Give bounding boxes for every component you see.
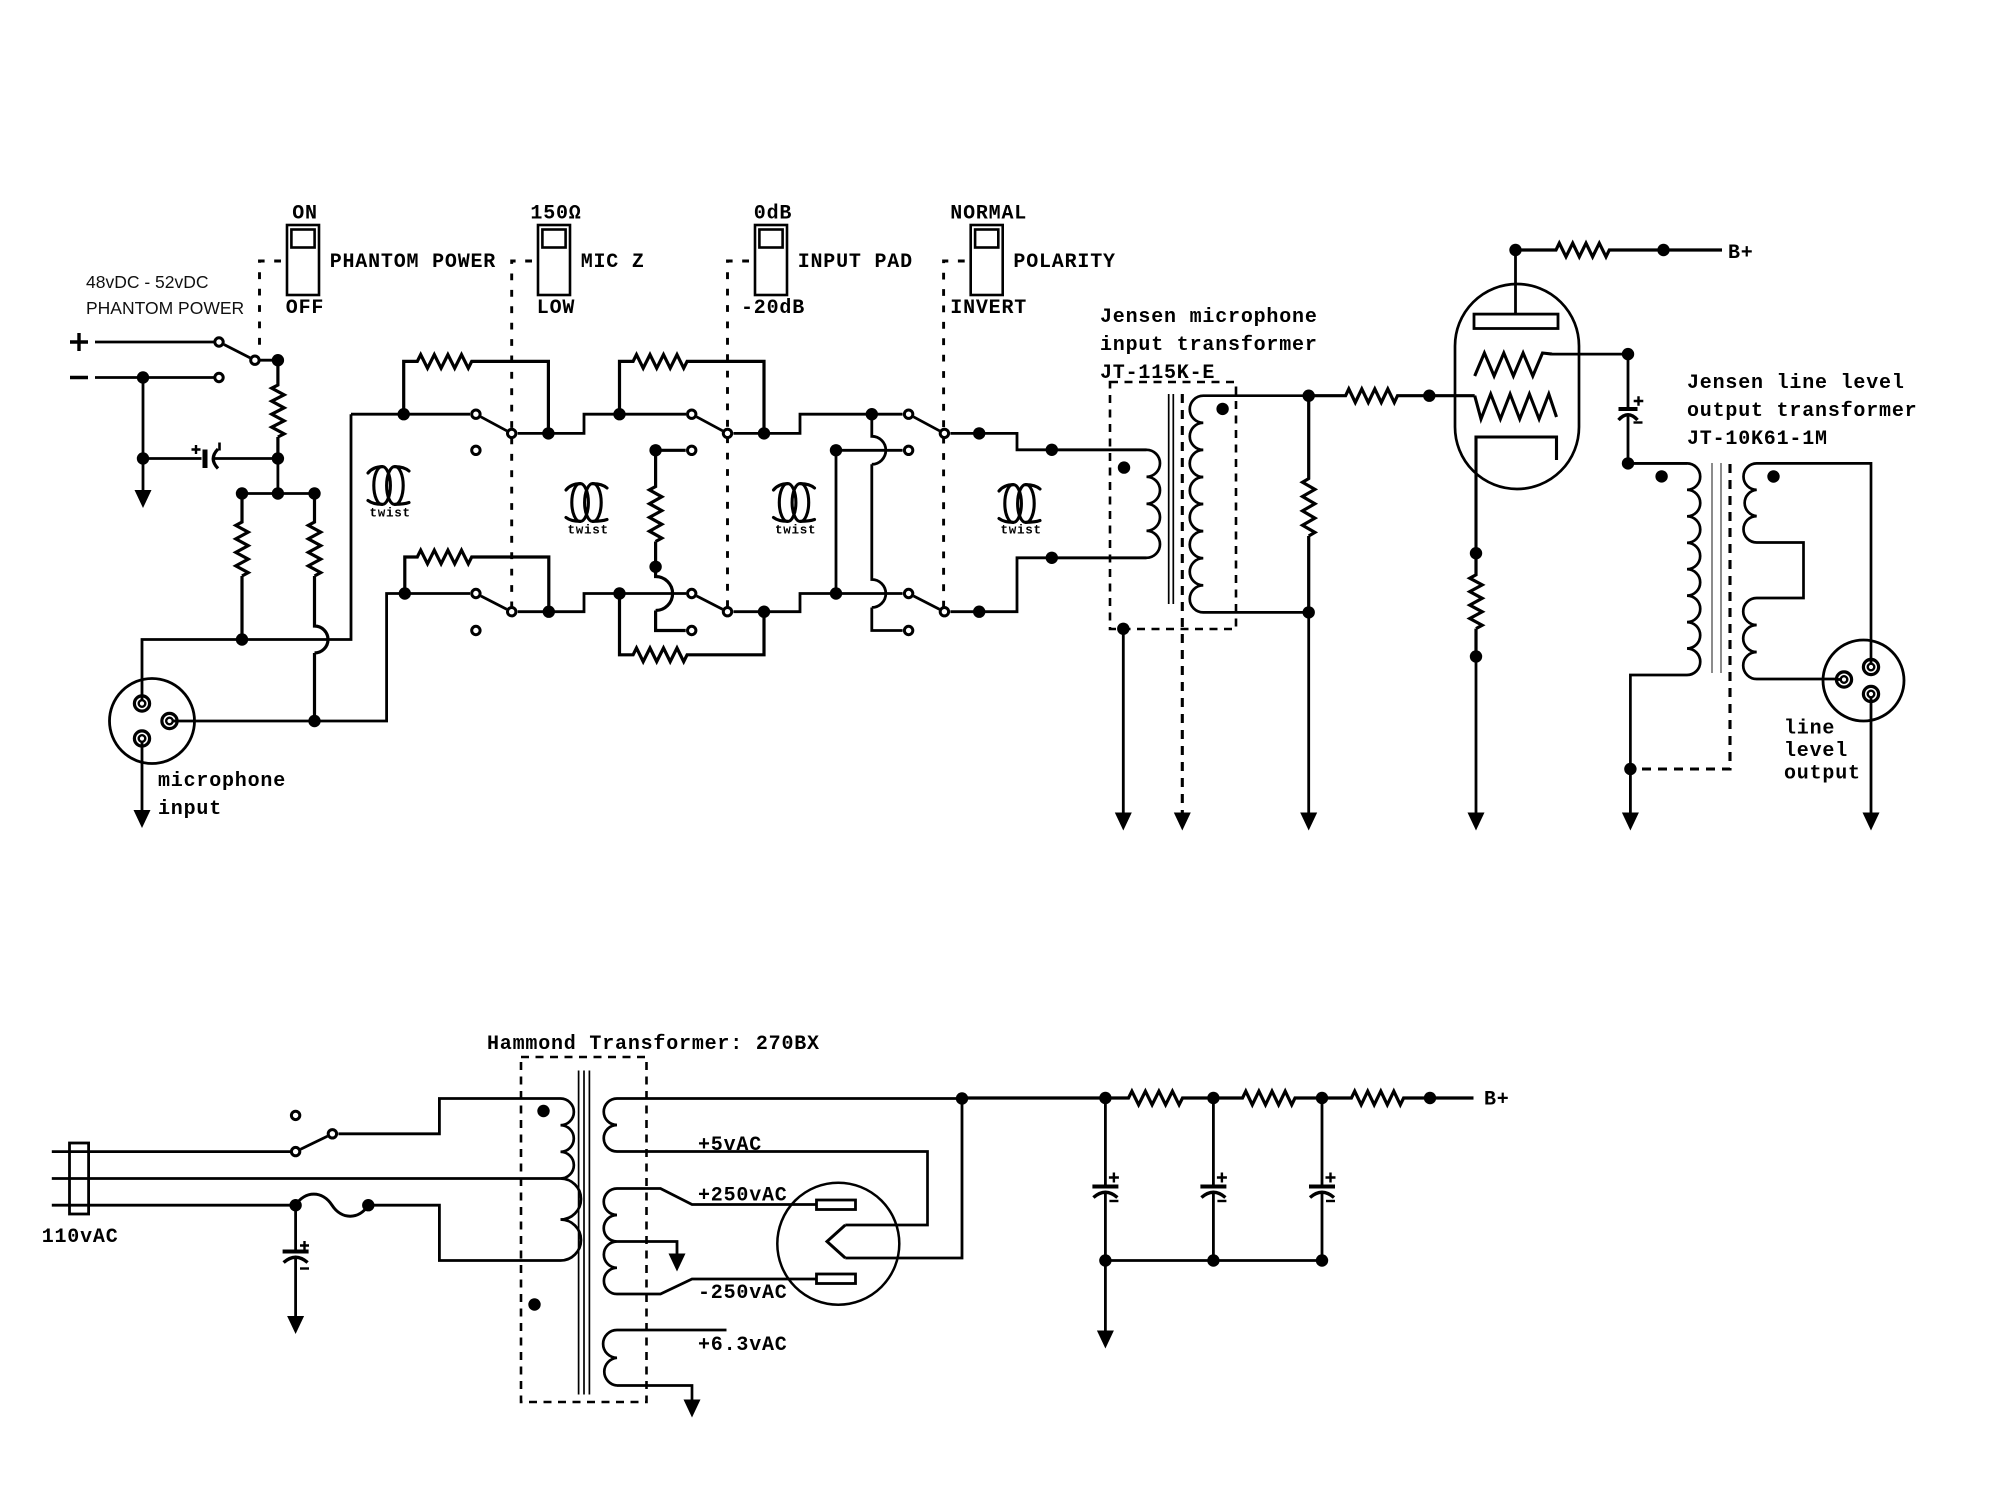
T1 primary phase dot (bottom) [528,1298,540,1310]
svg-text:input: input [158,798,222,821]
wire HV center tap [617,1242,677,1254]
wire cap left [143,457,202,460]
svg-text:output: output [1784,763,1861,786]
ground (faraday shield) [1174,813,1191,831]
switch S4a contact [904,410,912,418]
dashed link (POLARITY switch) [944,261,965,612]
V1 lower element (grid) [1475,394,1557,419]
svg-text:JT-10K61-1M: JT-10K61-1M [1687,428,1828,451]
svg-text:PHANTOM POWER: PHANTOM POWER [330,251,496,274]
junction R5 ends [399,587,411,599]
svg-text:150Ω: 150Ω [530,203,581,226]
transformer T1 primary winding [561,1099,582,1261]
junction B+ feed [1509,244,1521,256]
transformer T2 secondary winding [1190,396,1309,613]
rectifier V2 envelope [777,1183,899,1305]
junction bottom node D [830,587,842,599]
fuse F1 [296,1194,369,1216]
ground (mic input shield) [134,810,151,828]
dashed link (MIC Z switch) [512,261,532,612]
switch S3b blade [697,596,723,609]
T2 secondary phase dot [1216,403,1228,415]
wire top row to S2a [351,413,470,416]
ground bus wire [1105,1259,1322,1262]
ground (transformer case) [1115,813,1132,831]
capacitor C6 plus [1326,1173,1336,1183]
contact (unused - side) [215,373,223,381]
svg-text:microphone: microphone [158,770,286,793]
svg-text:twist: twist [370,507,411,521]
junction fuse left [289,1199,301,1211]
capacitor C5 (filter) [1200,1185,1226,1189]
twisted pair symbol 4 [1005,485,1022,523]
resistor R11 (cathode) [1470,553,1482,656]
switch S4b common [940,608,948,616]
capacitor C2 (output coupling) [1619,407,1638,411]
resistor R2 (phantom leg A) [236,494,248,640]
wire plate to C2 [1627,354,1630,407]
wire C2 to T3 [1628,416,1687,464]
wire mic hot: pin2 up and over to top row [142,414,351,703]
svg-text:+250vAC: +250vAC [698,1185,788,1208]
V1 cathode [1476,437,1557,553]
junction divider nodes [236,487,248,499]
switch S3b common [723,608,731,616]
ground (HV center tap) [669,1254,686,1272]
svg-text:PHANTOM POWER: PHANTOM POWER [86,298,244,318]
svg-text:Jensen microphone: Jensen microphone [1100,306,1318,329]
svg-text:POLARITY: POLARITY [1013,251,1115,274]
wire AC neutral (line 2) [52,1177,561,1180]
svg-text:INVERT: INVERT [950,297,1027,320]
terminal - (phantom negative) [70,376,88,379]
svg-text:48vDC - 52vDC: 48vDC - 52vDC [86,272,209,292]
resistor R8 (pad series bottom) [620,594,765,662]
wire mic cold: pin3 to bottom row [170,594,405,722]
wire polarity cross low-to-hot [836,450,903,593]
AC plug connector [70,1143,89,1214]
junction R2 bottom [236,633,248,645]
transformer T2 primary winding [1052,450,1160,558]
switch S4b invert contact [904,626,912,634]
svg-text:ON: ON [292,203,318,226]
svg-text:twist: twist [775,524,816,538]
resistor R6 (pad series top) [620,355,765,434]
wire C5 to bus [1212,1193,1215,1261]
toggle switch body (INPUT PAD switch) [755,225,787,295]
wire pin1 to ground [141,739,144,811]
junction cap node [137,452,149,464]
capacitor C3 plus [300,1241,309,1250]
switch S5 common [328,1130,336,1138]
svg-text:-250vAC: -250vAC [698,1282,788,1305]
junction bottom row node B [613,587,625,599]
junction shield node [1624,763,1636,775]
T2 faraday shield (dashed) [1181,394,1184,813]
svg-text:0dB: 0dB [754,203,792,226]
svg-text:Jensen line level: Jensen line level [1687,372,1905,395]
T3 faraday shield (dashed) [1630,464,1730,769]
wire shield to ground [1629,769,1632,813]
wire pin1 to ground [1870,694,1873,813]
capacitor C5 minus [1217,1200,1226,1202]
junction R4 ends [398,408,410,420]
junction top out [973,427,985,439]
J2 pin rings [1863,659,1878,674]
switch S2a common [508,429,516,437]
ground (line output) [1863,813,1880,831]
resistor R9 (secondary load) [1303,396,1315,613]
V1 upper element [1475,353,1552,376]
wire rail to C6 [1321,1098,1324,1187]
T3 secondary phase dot [1767,470,1779,482]
resistor R12 (plate load) [1516,243,1723,257]
wire S2b common to pad section [518,594,686,612]
switch S2b contact [472,589,480,597]
switch S3b contact [688,589,696,597]
wire S4b common to transformer [950,558,1146,612]
tube V1 envelope [1455,284,1579,489]
twisted pair symbol 2 [572,484,589,522]
wire C6 to bus [1321,1193,1324,1261]
capacitor C4 minus [1109,1200,1118,1202]
wire S3b common to polarity section [734,594,903,612]
wire fuse to T1 primary bottom [368,1205,560,1260]
capacitor C1 plus sign [192,445,201,454]
svg-text:+6.3vAC: +6.3vAC [698,1334,788,1357]
dashed link (PHANTOM POWER switch) [260,261,282,348]
wire S3a common to polarity section [734,414,903,433]
junction grid node [1423,390,1435,402]
transformer T2 shield box [1110,382,1236,629]
wire +250vAC lead [617,1189,817,1205]
transformer T1 core [579,1071,590,1395]
V2 anode 2 [817,1274,856,1284]
wire cathode to ground [1475,657,1478,813]
svg-text:level: level [1784,740,1848,763]
T1 6.3V heater winding [603,1330,726,1400]
terminal + (phantom positive) [70,333,88,351]
wire cap right [214,457,278,460]
junction R6 right [758,427,770,439]
junction rail nodes [1099,1092,1111,1104]
svg-text:line: line [1784,718,1835,741]
switch S4b contact [904,589,912,597]
switch S5 blade [301,1136,328,1149]
resistor R3 (phantom leg B) [308,494,328,722]
svg-text:twist: twist [568,524,609,538]
svg-text:Hammond Transformer: 270BX: Hammond Transformer: 270BX [487,1033,820,1056]
switch S5 spare contact [291,1111,299,1119]
wire AC line 3 [52,1204,296,1207]
capacitor C2 minus [1634,421,1643,423]
junction B+ takeoff [956,1092,968,1104]
wire + terminal to switch S1 [95,341,214,344]
junction cross nodes [830,444,842,456]
svg-text:B+: B+ [1484,1089,1510,1112]
V2 anode 1 [817,1200,856,1210]
switch S1 blade [224,345,250,358]
wire rail to C5 [1212,1098,1215,1187]
switch S1 contact (+ input) [215,338,223,346]
switch S3a blade [697,417,723,431]
J2 pin 3 lead [1837,678,1844,681]
wire line to C3 [294,1205,297,1251]
capacitor C6 minus [1326,1200,1335,1202]
wire to ground [142,459,145,491]
transformer T3 secondary winding [1743,463,1871,679]
J2 pin 2 lead [1870,660,1873,667]
twisted pair symbol 3 [779,484,796,522]
toggle switch body (PHANTOM POWER switch) [287,225,319,295]
switch S2a blade [481,417,507,431]
switch S2a contact [472,410,480,418]
wire S4a common to transformer [950,433,1146,449]
capacitor C4 (filter) [1092,1185,1118,1189]
B+ rail with resistors R13 R14 R15 [962,1091,1474,1105]
J1 pin centers [139,700,146,707]
junction bottom out [973,606,985,618]
capacitor C2 plus [1634,396,1644,406]
T1 primary phase dot (top) [537,1105,549,1117]
wire - down to cap [142,378,145,459]
switch S3a pad contact [688,446,696,454]
svg-text:input transformer: input transformer [1100,334,1318,357]
transformer T3 primary winding [1628,463,1700,769]
transformer T3 core [1712,463,1721,673]
junction plate-cap node [1622,348,1634,360]
svg-text:output transformer: output transformer [1687,400,1917,423]
svg-text:INPUT PAD: INPUT PAD [798,251,913,274]
resistor R1 (phantom feed) [272,360,284,458]
wire switch to T1 primary top [338,1099,560,1134]
V1 plate lead [1514,250,1517,314]
switch S2b blade [481,596,507,609]
wire -250vAC lead [617,1279,817,1294]
ground (line filter) [287,1316,304,1334]
capacitor C1 (phantom filter) [203,450,208,469]
switch S1 common contact [251,356,259,364]
ground (output shield) [1622,813,1639,831]
ground (secondary return) [1300,813,1317,831]
junction R8 right [758,606,770,618]
transformer T2 core [1169,394,1174,604]
T1 HV winding [604,1189,617,1295]
wire S1 common to node [260,359,278,362]
wire S2a common to pad section [518,414,686,433]
ground (phantom source) [135,490,152,508]
svg-text:+5vAC: +5vAC [698,1134,762,1157]
svg-text:110vAC: 110vAC [42,1226,119,1249]
wire T2 case to ground [1122,629,1125,813]
capacitor C5 plus [1217,1173,1227,1183]
capacitor C3 (line filter) [283,1250,309,1254]
svg-text:LOW: LOW [537,297,575,320]
switch S3b pad contact [688,626,696,634]
capacitor C6 (filter) [1309,1185,1335,1189]
resistor R4 (mic Z top) [404,355,549,434]
junction pin3 rail [308,715,320,727]
wire - terminal [95,376,214,379]
junction - wire [137,371,149,383]
junction T2 case [1117,623,1129,635]
junction fuse right [362,1199,374,1211]
svg-text:twist: twist [1001,524,1042,538]
svg-text:MIC Z: MIC Z [581,251,645,274]
toggle switch body (POLARITY switch) [971,225,1003,295]
wire AC line 1 [52,1150,290,1153]
J1 pin 3 lead [170,720,178,723]
J2 pin centers [1868,664,1875,671]
switch S2b spare contact [472,626,480,634]
wire rail to C4 [1104,1098,1107,1187]
T1 5V rectifier winding [604,1099,962,1226]
wire R9 to ground [1307,612,1310,812]
V1 plate [1474,314,1558,328]
resistor R10 (grid stopper) [1309,389,1475,403]
wire polarity cross hot-to-low [872,414,903,630]
transformer T1 box [521,1057,647,1402]
junction top node C [866,408,878,420]
junction T3 primary top [1622,457,1634,469]
junction bus nodes [1099,1254,1111,1266]
wire R1 to divider rail [276,459,279,494]
svg-text:B+: B+ [1728,242,1754,265]
switch S4a invert contact [904,446,912,454]
junction R7 nodes [649,444,661,456]
switch S4b blade [914,596,940,609]
svg-text:NORMAL: NORMAL [950,203,1027,226]
switch S4a common [940,429,948,437]
ground (heater winding) [684,1400,701,1418]
switch S4a blade [914,417,940,431]
wire bottom row to S2b [405,592,470,595]
svg-text:-20dB: -20dB [741,297,805,320]
T3 primary phase dot [1655,470,1667,482]
capacitor C3 minus [300,1267,309,1269]
J1 pin rings [134,696,149,711]
switch S2b common [508,608,516,616]
capacitor C4 plus [1109,1173,1119,1183]
ground (PSU common) [1097,1331,1114,1349]
resistor R5 (mic Z bottom) [405,550,549,612]
switch S3a common [723,429,731,437]
junction node R1 top [272,354,284,366]
wire C3 to ground [294,1258,297,1316]
XLR line output connector J2 [1823,640,1904,721]
wire plate output [1552,353,1628,356]
switch S5 contact [291,1147,299,1155]
svg-text:OFF: OFF [286,297,324,320]
resistor R7 (pad shunt) [649,450,685,630]
XLR microphone input connector J1 [110,679,195,764]
wire cathode to B+ rail [845,1099,962,1259]
wire bus to ground [1104,1261,1107,1331]
wire divider rail [242,492,315,495]
J1 pin 2 lead [141,696,144,704]
switch S3a contact [688,410,696,418]
junction top row node A [613,408,625,420]
junction cathode node [1470,547,1482,559]
ground (cathode return) [1468,813,1485,831]
toggle switch body (MIC Z switch) [538,225,570,295]
T2 primary phase dot [1118,461,1130,473]
twisted pair symbol 1 [374,467,391,505]
junction secondary nodes [1303,390,1315,402]
dashed link (INPUT PAD switch) [728,261,750,612]
wire C4 to bus [1104,1193,1107,1261]
switch S2a spare contact [472,446,480,454]
V2 filament [827,1225,845,1258]
